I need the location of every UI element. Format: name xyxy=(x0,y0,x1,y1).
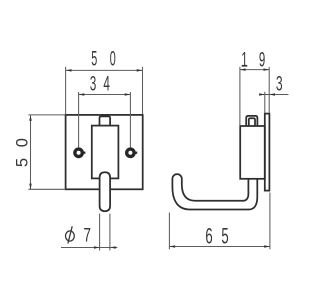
dim 34 arrows xyxy=(79,93,85,96)
svg-text:5: 5 xyxy=(221,224,228,248)
svg-text:5: 5 xyxy=(91,46,97,70)
plate front view xyxy=(66,115,143,189)
dim 19 arrows xyxy=(240,68,246,71)
svg-text:7: 7 xyxy=(84,224,91,246)
dim phi7 arrows xyxy=(94,246,100,249)
dim 50 left vertical: line and extension lines xyxy=(30,115,32,189)
dim 65 arrows xyxy=(170,245,176,248)
hook rod front view xyxy=(100,172,111,211)
wall plate side view xyxy=(265,114,270,191)
dim 50 top: line and extension lines xyxy=(66,69,143,71)
hole right xyxy=(127,149,134,156)
tab side view inner xyxy=(249,118,255,126)
svg-text:1: 1 xyxy=(241,48,247,72)
dim 34: line and extension lines xyxy=(79,94,131,96)
dim 50 vertical arrows xyxy=(29,115,32,121)
dim 65: line and extension lines xyxy=(169,246,270,248)
svg-text:6: 6 xyxy=(205,224,212,248)
hook side view xyxy=(172,174,257,209)
svg-text:3: 3 xyxy=(90,70,97,95)
hole left xyxy=(75,149,82,156)
channel (hook carrier) front view xyxy=(92,126,119,179)
dim 3 arrows xyxy=(259,93,265,96)
dim phi7: line and extension lines xyxy=(61,247,117,249)
svg-text:0: 0 xyxy=(13,138,31,147)
svg-text:9: 9 xyxy=(259,48,265,72)
svg-text:0: 0 xyxy=(110,46,116,70)
svg-text:5: 5 xyxy=(13,158,31,167)
body (channel) side view xyxy=(240,126,265,179)
svg-text:3: 3 xyxy=(276,71,283,96)
dim 50 top arrows xyxy=(66,69,72,72)
dim text phi 7 xyxy=(66,226,75,243)
tab on channel front view xyxy=(100,116,111,125)
svg-text:4: 4 xyxy=(103,70,110,95)
dimension lines xyxy=(28,67,288,251)
arrowheads xyxy=(29,68,275,248)
dim 3 side: line and extension line xyxy=(259,94,288,96)
tab side view outer xyxy=(246,116,257,126)
dim 19: line and extension lines xyxy=(240,69,269,71)
